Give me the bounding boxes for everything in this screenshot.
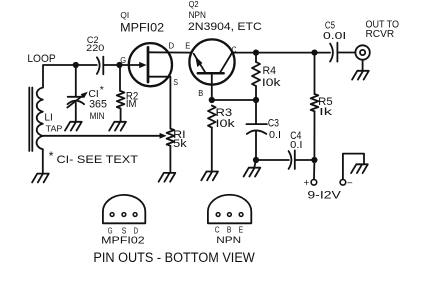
svg-text:S: S — [122, 225, 127, 235]
svg-text:MIN: MIN — [90, 111, 105, 121]
svg-text:IM: IM — [126, 99, 137, 110]
svg-text:G: G — [120, 55, 126, 65]
svg-text:2N3904, ETC: 2N3904, ETC — [188, 21, 262, 33]
svg-text:TAP: TAP — [46, 124, 63, 134]
svg-text:*: * — [100, 84, 104, 96]
svg-text:220: 220 — [86, 43, 104, 53]
svg-text:G: G — [108, 225, 113, 235]
svg-text:5k: 5k — [173, 138, 187, 150]
svg-text:MPFI02: MPFI02 — [101, 236, 145, 247]
svg-text:D: D — [134, 225, 139, 235]
svg-text:NPN: NPN — [216, 235, 241, 246]
svg-text:E: E — [239, 224, 244, 234]
svg-text:C: C — [215, 224, 220, 234]
svg-text:CI- SEE TEXT: CI- SEE TEXT — [57, 154, 139, 166]
svg-text:R4: R4 — [263, 65, 277, 77]
svg-text:0.0I: 0.0I — [323, 31, 346, 42]
svg-text:B: B — [227, 224, 232, 234]
svg-text:MPFI02: MPFI02 — [120, 21, 164, 35]
svg-text:LI: LI — [44, 112, 53, 123]
svg-text:0.I: 0.I — [290, 140, 302, 151]
svg-text:LOOP: LOOP — [27, 53, 55, 65]
svg-text:C3: C3 — [268, 118, 279, 130]
svg-text:I0k: I0k — [216, 118, 236, 130]
svg-text:*: * — [49, 149, 54, 163]
svg-text:D: D — [169, 41, 175, 51]
svg-text:RCVR: RCVR — [366, 29, 395, 40]
svg-text:Q2: Q2 — [189, 0, 199, 9]
svg-text:B: B — [198, 88, 203, 98]
svg-text:0.I: 0.I — [269, 130, 281, 141]
svg-text:–: – — [347, 176, 352, 188]
svg-text:S: S — [173, 77, 178, 87]
svg-text:QI: QI — [120, 10, 129, 20]
svg-text:9-I2V: 9-I2V — [307, 189, 341, 201]
svg-text:+: + — [304, 177, 310, 189]
svg-text:E: E — [185, 41, 190, 51]
svg-text:PIN OUTS - BOTTOM VIEW: PIN OUTS - BOTTOM VIEW — [93, 250, 255, 265]
svg-text:NPN: NPN — [189, 10, 206, 20]
svg-text:Ik: Ik — [319, 107, 333, 118]
svg-text:C: C — [232, 44, 237, 54]
svg-text:365: 365 — [89, 98, 107, 110]
svg-text:I0k: I0k — [262, 77, 281, 89]
